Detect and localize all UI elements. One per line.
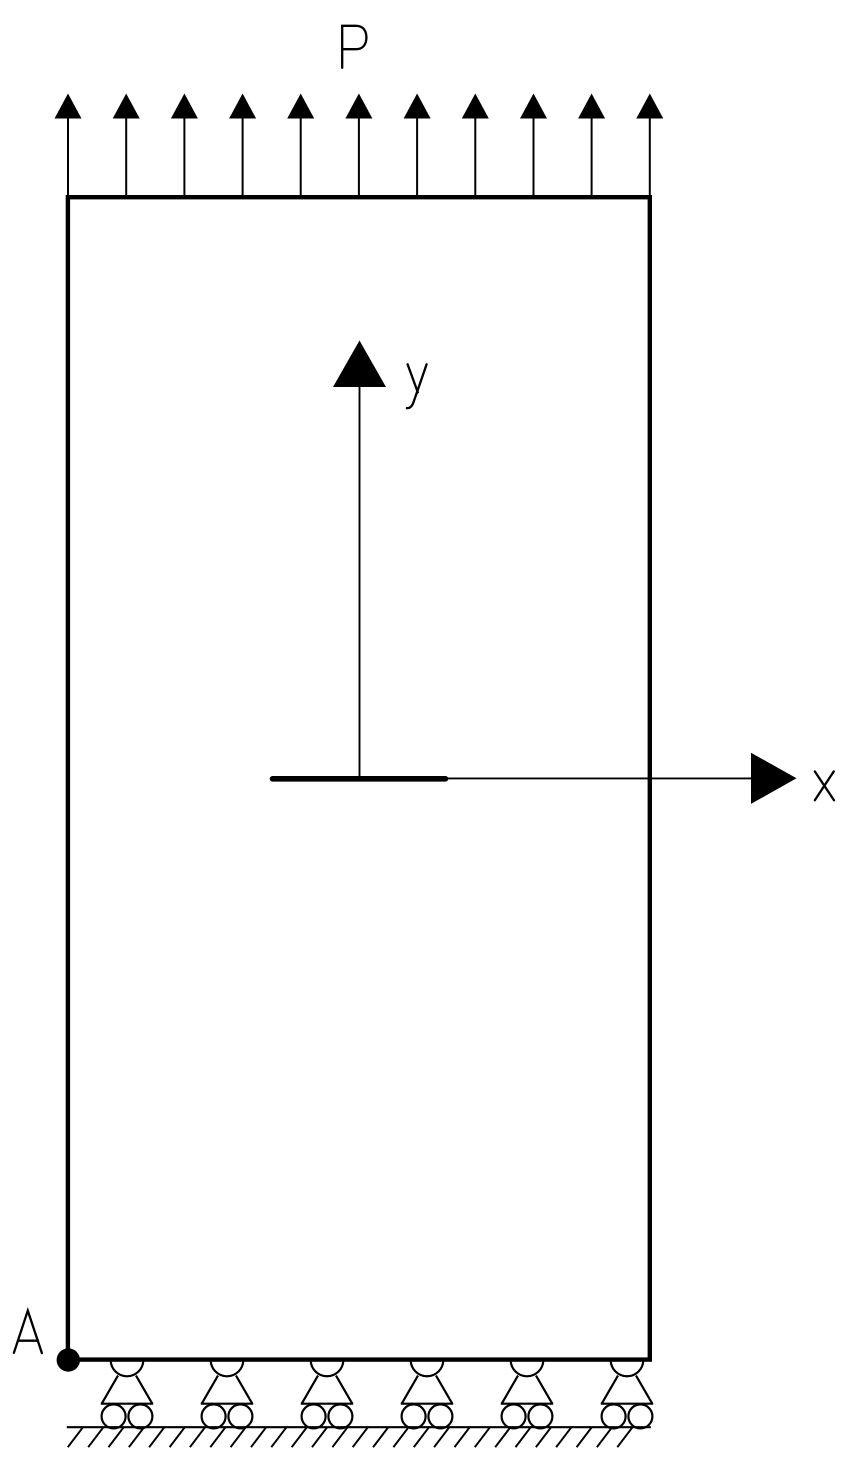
- roller support 4: [401, 1360, 453, 1428]
- label x: [815, 771, 834, 800]
- x-axis shaft: [447, 777, 752, 779]
- plate (rectangular panel): [68, 197, 650, 1359]
- label y: [407, 364, 427, 408]
- distributed load arrowheads (11 heads): [55, 94, 664, 119]
- distributed load arrows (11 shafts): [68, 116, 650, 196]
- crack (thick center segment): [273, 776, 446, 782]
- roller support 1: [101, 1360, 153, 1428]
- label P (applied load): [342, 26, 366, 68]
- y-axis arrowhead: [333, 341, 386, 388]
- y-axis shaft: [359, 385, 361, 778]
- roller support 6: [601, 1360, 653, 1428]
- roller support 3: [301, 1360, 353, 1428]
- point A (corner dot): [57, 1348, 80, 1371]
- ground line: [67, 1426, 651, 1428]
- roller support 2: [201, 1360, 253, 1428]
- ground hatching: [68, 1427, 633, 1447]
- label A: [14, 1311, 42, 1353]
- x-axis arrowhead: [751, 753, 797, 804]
- roller support 5: [501, 1360, 553, 1428]
